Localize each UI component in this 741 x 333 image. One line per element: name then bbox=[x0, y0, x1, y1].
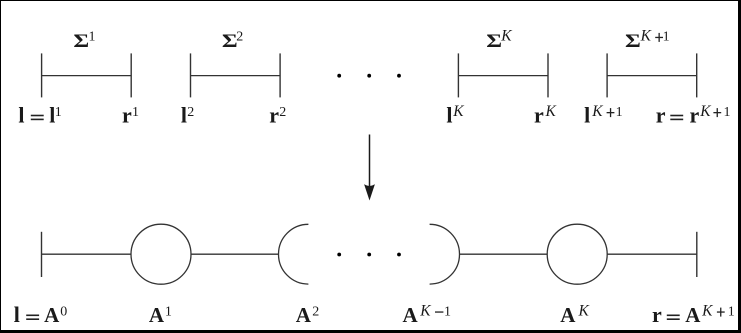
svg-text:1: 1 bbox=[89, 30, 96, 45]
interval Sigma^2 right tick (endpoint r^2) bbox=[279, 53, 281, 97]
svg-text:r: r bbox=[122, 102, 132, 127]
label l = l^1 bbox=[18, 102, 61, 127]
interval Sigma^K+1 right tick (endpoint r^K+1) bbox=[696, 53, 698, 97]
svg-text:A: A bbox=[296, 303, 312, 327]
circle node A^1 bbox=[131, 224, 191, 284]
label Sigma^2 bbox=[222, 30, 243, 52]
svg-text:2: 2 bbox=[187, 105, 194, 120]
wire A^K to r bbox=[607, 253, 697, 255]
svg-text:K: K bbox=[640, 28, 652, 45]
label A^K bbox=[560, 302, 589, 327]
label Sigma^1 bbox=[73, 30, 95, 52]
circle node A^K bbox=[547, 224, 607, 284]
node l=A^0 tick bbox=[41, 232, 43, 277]
svg-text:l: l bbox=[14, 302, 20, 327]
svg-text:l: l bbox=[584, 102, 590, 127]
label l^2 bbox=[181, 102, 194, 127]
svg-text:K: K bbox=[699, 103, 711, 120]
label Sigma^K bbox=[486, 28, 512, 52]
label l^K bbox=[446, 102, 464, 127]
svg-text:1: 1 bbox=[444, 304, 451, 319]
svg-text:1: 1 bbox=[724, 105, 731, 120]
label A^1 bbox=[149, 303, 172, 327]
svg-text:1: 1 bbox=[165, 304, 172, 319]
interval Sigma^2 wire bbox=[191, 75, 281, 77]
svg-text:1: 1 bbox=[616, 105, 623, 120]
svg-text:r: r bbox=[690, 102, 700, 127]
svg-text:K: K bbox=[452, 103, 464, 120]
svg-text:Σ: Σ bbox=[486, 30, 502, 51]
svg-text:K: K bbox=[500, 28, 512, 45]
interval Sigma^K+1 wire bbox=[607, 75, 697, 77]
wire l to A^1 bbox=[42, 253, 132, 255]
svg-text:Σ: Σ bbox=[73, 30, 89, 51]
label r^K bbox=[534, 102, 557, 127]
svg-text:r: r bbox=[534, 102, 544, 127]
interval Sigma^1 left tick (endpoint l^1) bbox=[41, 53, 43, 97]
wire A^K-1 to A^K bbox=[460, 253, 548, 255]
svg-text:Σ: Σ bbox=[625, 30, 641, 51]
label l^K+1 bbox=[584, 102, 623, 127]
svg-text:2: 2 bbox=[279, 105, 286, 120]
interval Sigma^1 wire bbox=[42, 75, 132, 77]
svg-text:0: 0 bbox=[60, 304, 67, 319]
label l = A^0 bbox=[14, 302, 68, 327]
svg-text:A: A bbox=[403, 303, 419, 327]
svg-text:K: K bbox=[578, 302, 590, 319]
node r=A^K+1 tick bbox=[696, 232, 698, 277]
wire A^1 to A^2 bbox=[191, 253, 278, 255]
svg-text:2: 2 bbox=[236, 30, 243, 45]
open arc node A^2 bbox=[279, 224, 309, 284]
svg-text:1: 1 bbox=[132, 105, 139, 120]
interval Sigma^1 right tick (endpoint r^1) bbox=[130, 53, 132, 97]
label Sigma^K+1 bbox=[625, 28, 670, 52]
interval Sigma^K wire bbox=[458, 75, 548, 77]
svg-text:r: r bbox=[269, 102, 279, 127]
interval Sigma^K left tick (endpoint l^K) bbox=[457, 53, 459, 97]
label A^K-1 bbox=[403, 302, 452, 327]
label r^2 bbox=[269, 102, 286, 127]
svg-text:A: A bbox=[149, 303, 165, 327]
svg-text:r: r bbox=[656, 102, 666, 127]
open arc node A^K-1 bbox=[430, 224, 460, 284]
ellipsis dots between Sigma^2 and Sigma^K bbox=[337, 74, 401, 78]
svg-text:l: l bbox=[181, 102, 187, 127]
label r = r^K+1 bbox=[656, 102, 731, 127]
label r = A^K+1 bbox=[652, 302, 735, 327]
label A^2 bbox=[296, 303, 320, 327]
svg-text:K: K bbox=[591, 103, 603, 120]
svg-text:l: l bbox=[18, 102, 24, 127]
svg-text:A: A bbox=[560, 303, 576, 327]
svg-text:1: 1 bbox=[728, 304, 735, 319]
svg-text:K: K bbox=[419, 302, 431, 319]
svg-text:l: l bbox=[446, 102, 452, 127]
svg-text:K: K bbox=[545, 103, 557, 120]
interval Sigma^K right tick (endpoint r^K) bbox=[547, 53, 549, 97]
svg-text:2: 2 bbox=[312, 304, 319, 319]
label r^1 bbox=[122, 102, 139, 127]
svg-text:A: A bbox=[44, 303, 60, 327]
interval Sigma^K+1 left tick (endpoint l^K+1) bbox=[606, 53, 608, 97]
svg-text:r: r bbox=[652, 302, 662, 327]
ellipsis dots between A^2 and A^K-1 bbox=[337, 253, 401, 257]
interval Sigma^2 left tick (endpoint l^2) bbox=[190, 53, 192, 97]
svg-text:A: A bbox=[685, 303, 701, 327]
svg-text:K: K bbox=[701, 302, 713, 319]
svg-text:1: 1 bbox=[663, 30, 670, 45]
arrow from interval row to node row bbox=[364, 135, 375, 201]
svg-text:1: 1 bbox=[55, 105, 62, 120]
